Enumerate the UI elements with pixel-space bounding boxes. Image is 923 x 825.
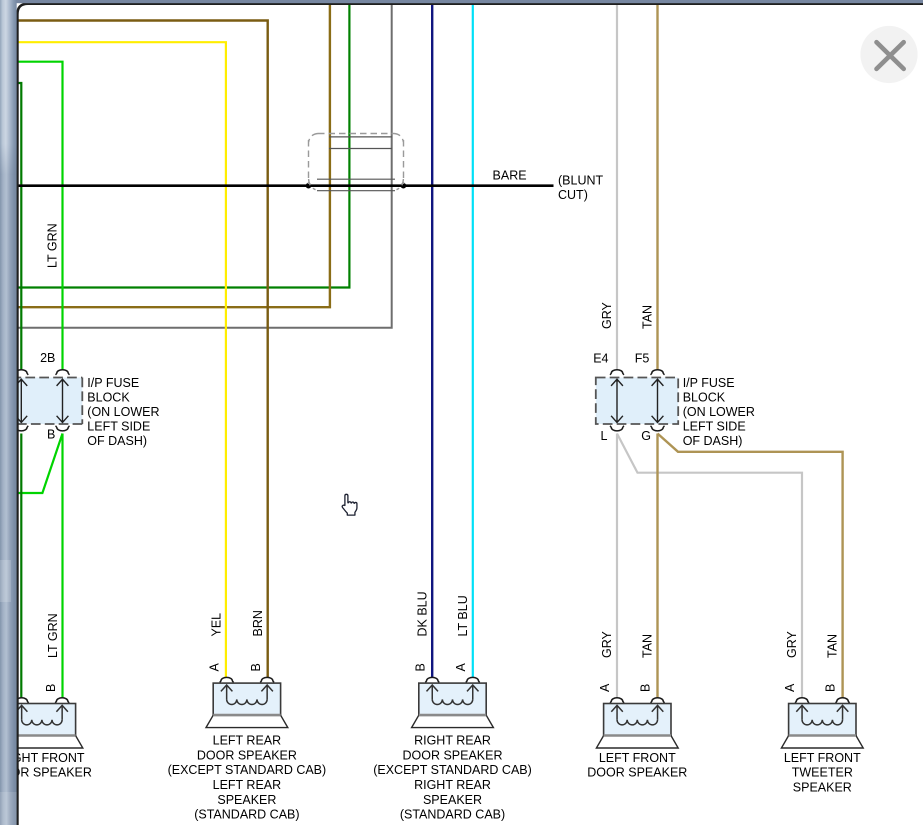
svg-text:TAN: TAN <box>641 305 655 329</box>
wire LT GRN branch diagonal to left edge <box>17 434 63 494</box>
wire GRY branch (fuse L to tweeter pin A) <box>617 434 802 698</box>
svg-text:LEFT SIDE: LEFT SIDE <box>683 419 746 433</box>
svg-text:B: B <box>44 684 58 692</box>
connector arc left (dk grn) <box>14 370 28 375</box>
wire TAN lower vertical (fuse G to left front door speaker pin B) <box>656 434 658 698</box>
svg-text:E4: E4 <box>593 352 608 366</box>
svg-text:B: B <box>414 663 428 671</box>
svg-text:B: B <box>824 684 838 692</box>
junction dot left <box>306 183 312 189</box>
svg-text:DOOR SPEAKER: DOOR SPEAKER <box>402 748 502 762</box>
svg-text:F5: F5 <box>635 352 650 366</box>
text I/P FUSE BLOCK right <box>683 376 755 448</box>
svg-text:OF DASH): OF DASH) <box>683 434 743 448</box>
svg-text:(EXCEPT STANDARD CAB): (EXCEPT STANDARD CAB) <box>168 763 327 777</box>
svg-text:I/P FUSE: I/P FUSE <box>87 376 139 390</box>
wire TAN branch (fuse G to tweeter pin B) <box>658 434 843 698</box>
svg-text:LEFT SIDE: LEFT SIDE <box>87 419 150 433</box>
svg-text:GRY: GRY <box>600 301 614 329</box>
speaker LEFT FRONT TWEETER SPEAKER <box>781 698 863 748</box>
svg-text:LT GRN: LT GRN <box>46 613 60 658</box>
wire DK GRN left vertical (left edge to fuse block) <box>17 83 21 370</box>
wire GRAY upper (left edge to top edge) <box>17 0 392 328</box>
svg-text:A: A <box>208 663 222 672</box>
connector L arc below <box>610 426 624 431</box>
wire LT GRN upper (left edge to fuse block 2B) <box>17 62 63 370</box>
svg-text:BARE: BARE <box>493 169 527 183</box>
svg-text:GRY: GRY <box>600 630 614 658</box>
fuse arrow right block F5 <box>652 379 664 422</box>
svg-text:SPEAKER: SPEAKER <box>793 780 852 794</box>
svg-text:RIGHT REAR: RIGHT REAR <box>414 778 491 792</box>
connector E4 arc <box>610 370 624 375</box>
svg-text:DOOR SPEAKER: DOOR SPEAKER <box>587 766 687 780</box>
svg-text:(ON LOWER: (ON LOWER <box>683 405 755 419</box>
fuse arrow right block E4 <box>611 379 623 422</box>
svg-text:CUT): CUT) <box>558 188 588 202</box>
text I/P FUSE BLOCK left <box>87 376 159 448</box>
top bar <box>0 0 923 3</box>
wire BRN2 olive upper (left edge to top edge) <box>17 0 330 307</box>
svg-text:TAN: TAN <box>826 634 840 658</box>
left scrollbar strip <box>0 0 17 825</box>
svg-text:DOOR SPEAKER: DOOR SPEAKER <box>197 748 297 762</box>
close button <box>860 26 917 83</box>
wire LT GRN lower vertical (fuse B to right front speaker pin B) <box>61 434 63 698</box>
wire DK GRN lower (fuse to right front speaker pin A) <box>20 434 22 698</box>
wire DK BLU (top edge to right rear speaker pin B) <box>431 0 433 678</box>
text RIGHT REAR DOOR SPEAKER <box>373 734 532 822</box>
connector B arc below <box>56 426 70 431</box>
svg-text:G: G <box>641 429 651 443</box>
svg-text:LEFT REAR: LEFT REAR <box>213 778 282 792</box>
svg-text:(EXCEPT STANDARD CAB): (EXCEPT STANDARD CAB) <box>373 763 532 777</box>
wire GRY upper (top edge to fuse block E4) <box>616 0 618 370</box>
junction dot right <box>401 183 407 189</box>
svg-text:B: B <box>639 684 653 692</box>
svg-text:LEFT FRONT: LEFT FRONT <box>599 751 676 765</box>
svg-text:(STANDARD CAB): (STANDARD CAB) <box>400 808 505 822</box>
svg-text:BLOCK: BLOCK <box>683 390 726 404</box>
text LEFT REAR DOOR SPEAKER <box>168 734 327 822</box>
svg-text:LEFT FRONT: LEFT FRONT <box>784 751 861 765</box>
speaker LEFT REAR DOOR SPEAKER <box>206 677 288 727</box>
wire BARE black (left edge to blunt cut) <box>17 184 554 187</box>
svg-text:A: A <box>454 663 468 672</box>
svg-text:LT GRN: LT GRN <box>46 223 60 268</box>
svg-text:2B: 2B <box>40 351 55 365</box>
connector 2B arc <box>56 370 70 375</box>
text LEFT FRONT TWEETER SPEAKER <box>784 751 861 795</box>
svg-text:RIGHT REAR: RIGHT REAR <box>414 734 491 748</box>
svg-text:L: L <box>601 429 608 443</box>
svg-text:BLOCK: BLOCK <box>87 390 130 404</box>
connector G arc below <box>651 426 665 431</box>
svg-text:SPEAKER: SPEAKER <box>217 793 276 807</box>
grommet pass-through lines <box>317 137 395 191</box>
svg-text:BRN: BRN <box>251 610 265 636</box>
svg-text:TAN: TAN <box>641 634 655 658</box>
wire YEL (left edge to left rear speaker pin A) <box>17 42 226 677</box>
speaker RIGHT FRONT DOOR SPEAKER <box>1 698 83 748</box>
connector F5 arc <box>651 370 665 375</box>
speaker LEFT FRONT DOOR SPEAKER <box>596 698 678 748</box>
connector arc below left <box>14 426 28 431</box>
svg-text:A: A <box>783 683 797 692</box>
svg-text:B: B <box>249 663 263 671</box>
svg-text:YEL: YEL <box>210 613 224 637</box>
svg-text:DK BLU: DK BLU <box>416 591 430 636</box>
svg-text:(BLUNT: (BLUNT <box>558 173 604 187</box>
wire GRY lower vertical (fuse L to left front door speaker pin A) <box>616 434 618 698</box>
I/P fuse block right <box>596 378 678 425</box>
svg-text:SPEAKER: SPEAKER <box>423 793 482 807</box>
svg-text:LEFT REAR: LEFT REAR <box>213 734 282 748</box>
mouse cursor <box>342 494 357 515</box>
text LEFT FRONT DOOR SPEAKER <box>587 751 687 780</box>
svg-text:TWEETER: TWEETER <box>792 766 853 780</box>
svg-text:B: B <box>47 427 55 441</box>
fuse arrow left block pin 2B <box>57 379 69 422</box>
speaker RIGHT REAR DOOR SPEAKER <box>412 677 494 727</box>
wire DK GRN upper horizontal-vertical (left edge to top edge) <box>17 0 349 288</box>
wire TAN upper (top edge to fuse block F5) <box>656 0 658 370</box>
wire LT BLU (top edge to right rear speaker pin A) <box>472 0 474 678</box>
svg-text:LT BLU: LT BLU <box>456 595 470 636</box>
svg-text:GRY: GRY <box>785 630 799 658</box>
I/P fuse block left <box>12 378 83 425</box>
svg-text:I/P FUSE: I/P FUSE <box>683 376 735 390</box>
svg-text:A: A <box>598 683 612 692</box>
svg-text:(ON LOWER: (ON LOWER <box>87 405 159 419</box>
wire BRN (left edge to left rear speaker pin B) <box>17 21 268 678</box>
text RIGHT FRONT DOOR SPEAKER <box>0 751 92 780</box>
fuse arrow left block pin A <box>15 379 27 422</box>
grommet dashed capsule <box>309 134 404 190</box>
svg-text:OF DASH): OF DASH) <box>87 434 147 448</box>
svg-text:(STANDARD CAB): (STANDARD CAB) <box>194 808 299 822</box>
